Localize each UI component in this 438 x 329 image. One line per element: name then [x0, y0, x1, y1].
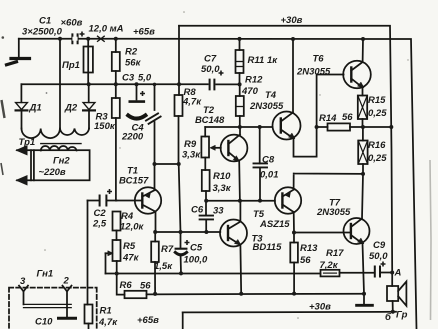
- svg-text:56к: 56к: [125, 58, 142, 69]
- svg-text:С7: С7: [204, 54, 217, 65]
- svg-text:7,2к: 7,2к: [320, 260, 339, 271]
- svg-text:50,0: 50,0: [369, 251, 388, 262]
- svg-text:33: 33: [213, 206, 224, 217]
- svg-text:Т4: Т4: [265, 90, 277, 101]
- svg-text:R7: R7: [161, 244, 174, 255]
- svg-text:R13: R13: [300, 243, 318, 254]
- svg-text:Пр1: Пр1: [62, 60, 80, 71]
- svg-text:С8: С8: [262, 155, 275, 166]
- svg-text:2N3055: 2N3055: [249, 101, 284, 112]
- svg-text:R6: R6: [120, 280, 133, 291]
- svg-text:ВС157: ВС157: [119, 176, 149, 187]
- svg-text:+65в: +65в: [137, 315, 159, 326]
- svg-text:56: 56: [342, 112, 353, 123]
- svg-text:5,0: 5,0: [138, 73, 152, 84]
- svg-text:R12: R12: [245, 75, 263, 86]
- svg-text:С10: С10: [35, 317, 53, 328]
- svg-text:Гн2: Гн2: [53, 156, 70, 167]
- svg-text:R16: R16: [368, 140, 386, 151]
- svg-text:56: 56: [300, 255, 311, 266]
- svg-text:Гн1: Гн1: [37, 269, 54, 280]
- svg-text:3: 3: [20, 276, 26, 287]
- svg-text:АSZ15: АSZ15: [259, 219, 290, 230]
- svg-text:0,25: 0,25: [368, 153, 387, 164]
- svg-text:470: 470: [241, 86, 259, 97]
- svg-text:R5: R5: [123, 241, 136, 252]
- svg-text:150к: 150к: [94, 121, 116, 132]
- svg-text:3,3к: 3,3к: [182, 150, 201, 161]
- svg-text:Тр1: Тр1: [19, 137, 36, 148]
- svg-text:~220в: ~220в: [39, 167, 66, 178]
- svg-text:б: б: [385, 312, 392, 323]
- svg-text:0,25: 0,25: [368, 108, 387, 119]
- svg-text:А: А: [394, 268, 402, 279]
- svg-text:2N3055: 2N3055: [296, 67, 331, 78]
- svg-text:2: 2: [63, 276, 70, 287]
- svg-text:12,0 мА: 12,0 мА: [89, 24, 124, 35]
- svg-text:ВС148: ВС148: [195, 115, 225, 126]
- svg-text:2N3055: 2N3055: [316, 207, 351, 218]
- svg-text:12,0к: 12,0к: [120, 222, 144, 233]
- svg-text:С5: С5: [190, 243, 203, 254]
- svg-text:R15: R15: [368, 95, 386, 106]
- svg-text:3,3к: 3,3к: [213, 183, 232, 194]
- svg-text:R14: R14: [319, 113, 337, 124]
- svg-text:Т6: Т6: [313, 54, 325, 65]
- svg-text:R9: R9: [184, 139, 197, 150]
- svg-text:4,7к: 4,7к: [98, 317, 118, 328]
- svg-text:1,5к: 1,5к: [154, 261, 173, 272]
- svg-text:+30в: +30в: [309, 302, 331, 313]
- svg-text:100,0: 100,0: [184, 255, 208, 266]
- svg-text:R2: R2: [125, 47, 138, 58]
- svg-text:R17: R17: [326, 248, 344, 259]
- svg-text:+30в: +30в: [281, 15, 303, 26]
- svg-text:Гр: Гр: [396, 310, 408, 321]
- svg-text:3×2500,0: 3×2500,0: [22, 27, 63, 38]
- svg-text:50,0: 50,0: [201, 64, 220, 75]
- svg-text:R11: R11: [248, 55, 265, 66]
- svg-text:С3: С3: [122, 73, 135, 84]
- svg-text:Д2: Д2: [64, 103, 78, 114]
- svg-text:+65в: +65в: [133, 27, 155, 38]
- svg-text:R1: R1: [100, 306, 112, 317]
- svg-text:2200: 2200: [121, 132, 144, 143]
- svg-text:1к: 1к: [267, 55, 278, 66]
- svg-text:R10: R10: [213, 171, 231, 182]
- svg-text:2,5: 2,5: [92, 219, 107, 230]
- svg-text:47к: 47к: [122, 253, 140, 264]
- svg-text:0,01: 0,01: [260, 170, 279, 181]
- svg-text:С2: С2: [94, 208, 107, 219]
- svg-text:×60в: ×60в: [61, 18, 83, 29]
- svg-text:Д1: Д1: [29, 103, 42, 114]
- svg-text:4,7к: 4,7к: [182, 97, 202, 108]
- svg-text:С9: С9: [373, 240, 386, 251]
- svg-text:56: 56: [140, 281, 151, 292]
- svg-text:ВD115: ВD115: [253, 242, 283, 253]
- svg-text:С6: С6: [191, 205, 204, 216]
- svg-text:R4: R4: [121, 211, 134, 222]
- svg-text:С1: С1: [39, 16, 51, 27]
